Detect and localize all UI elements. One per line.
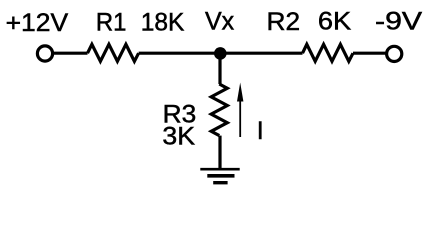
resistor R2 — [303, 44, 354, 61]
svg-text:18K: 18K — [141, 8, 185, 36]
wire R1 to node Vx — [139, 52, 220, 55]
ground — [200, 169, 239, 183]
wire R2 to right terminal — [353, 52, 387, 55]
wire node down to R3 — [218, 53, 221, 84]
current arrow I — [237, 83, 243, 138]
svg-text:+12V: +12V — [6, 9, 69, 37]
wire node to R2 — [220, 52, 303, 55]
svg-text:3K: 3K — [162, 122, 195, 150]
wire terminal to R1 — [53, 52, 88, 55]
svg-text:R2: R2 — [267, 8, 301, 36]
wire R3 to ground — [218, 136, 221, 169]
svg-text:-9V: -9V — [375, 8, 422, 36]
node Vx junction dot — [214, 47, 227, 60]
svg-text:I: I — [257, 117, 264, 145]
resistor R1 — [88, 44, 139, 61]
terminal -9V — [387, 46, 402, 61]
svg-text:6K: 6K — [318, 8, 352, 36]
terminal +12V — [37, 46, 52, 61]
svg-text:Vx: Vx — [205, 7, 235, 35]
resistor R3 — [211, 84, 227, 136]
svg-text:R1: R1 — [96, 8, 127, 36]
